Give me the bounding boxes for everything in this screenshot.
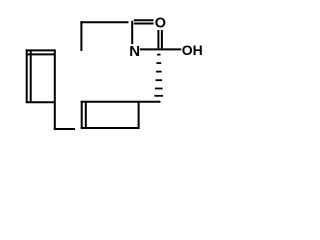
svg-text:N: N: [129, 43, 140, 60]
svg-text:O: O: [155, 16, 166, 32]
svg-text:OH: OH: [182, 42, 203, 58]
